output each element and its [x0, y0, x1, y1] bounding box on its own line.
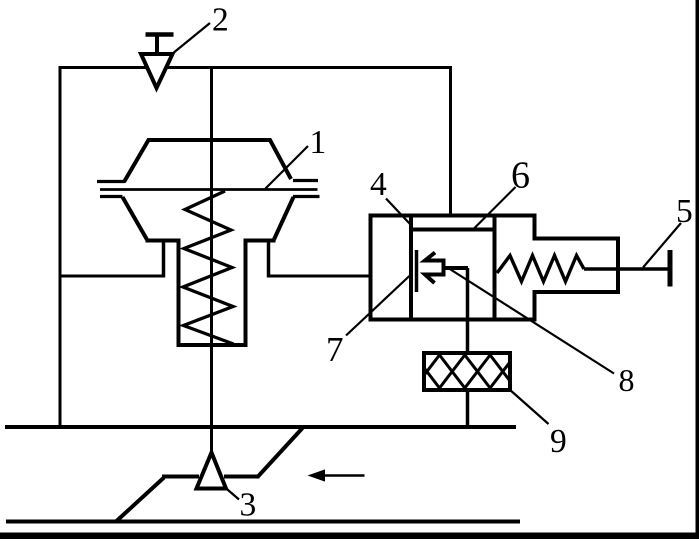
wire: left vertical signal line [59, 66, 62, 427]
svg-text:9: 9 [550, 423, 567, 460]
actuator 1: spring housing left wall [177, 239, 181, 348]
actuator 1: upper shell [124, 140, 291, 182]
wire: left lower-chamber branch [60, 275, 165, 278]
leader line to 2 [172, 23, 210, 54]
pipe: right jog diagonal [258, 428, 303, 477]
pipe: lower process line [6, 520, 520, 524]
nozzle 8: upper arrow [425, 253, 444, 261]
pipe: left jog horizontal [162, 475, 199, 479]
actuator 1: upper-left flange line [97, 180, 125, 183]
leader line to 3 [225, 487, 240, 500]
leader line to 7 [346, 274, 412, 336]
pilot body: partition 4 [409, 216, 413, 319]
pilot body 4: outer stepped outline [371, 216, 619, 320]
wire: damper stem down to pipe [466, 389, 470, 427]
actuator 1: spring housing bottom [177, 343, 248, 347]
leader line to 5 [643, 223, 681, 268]
damper 9: hatched box [414, 353, 515, 390]
actuator 1: lower shell right diagonal [274, 197, 294, 241]
nozzle 8: vertical joint [442, 259, 446, 277]
pilot body: inner top plate 6 [411, 228, 495, 232]
svg-text:5: 5 [676, 193, 693, 230]
vent symbol 2: stem [155, 35, 159, 55]
leader line to 1 [266, 146, 309, 189]
wire: top horizontal signal line [59, 66, 453, 69]
pipe: upper process line [5, 425, 516, 429]
svg-text:1: 1 [310, 124, 327, 161]
actuator 1: lower-left flange line [100, 195, 123, 198]
scan artifact: right edge bar [696, 0, 699, 539]
pipe: right jog horizontal [224, 475, 260, 479]
pilot body: partition right [493, 216, 497, 319]
vent symbol 2: triangle [141, 54, 173, 88]
svg-text:8: 8 [619, 362, 635, 398]
wire: center valve stem vertical [210, 68, 213, 454]
actuator 1: return spring zigzag [183, 191, 234, 344]
spring 5: adjuster T end [668, 250, 673, 287]
spring 5: adjuster rod [584, 267, 670, 270]
svg-text:7: 7 [326, 330, 344, 369]
leader line to 8 [449, 269, 614, 374]
vent symbol 2: T-bar [146, 32, 174, 37]
svg-text:2: 2 [212, 2, 229, 39]
actuator 1: diaphragm line [100, 188, 318, 191]
nozzle 8: lower arrow [425, 275, 444, 284]
svg-text:3: 3 [240, 487, 257, 524]
flow arrow: head [308, 469, 326, 481]
valve plug 3: triangle [197, 453, 227, 489]
actuator 1: lower-right flange line [293, 195, 320, 198]
leader line to 4 [386, 199, 410, 225]
svg-text:6: 6 [511, 154, 530, 196]
svg-text:4: 4 [370, 166, 387, 203]
wire: right lower-chamber branch to pilot body [267, 275, 371, 278]
spring 5: zigzag [497, 256, 584, 282]
wire: right vertical line to pilot body top [449, 66, 452, 216]
actuator 1: upper-right flange line [293, 179, 318, 182]
actuator 1: spring housing right wall [244, 239, 248, 348]
scan artifact: bottom bar [0, 533, 699, 540]
actuator 1: right shoulder [244, 239, 276, 243]
actuator 1: left shoulder [146, 239, 181, 243]
actuator 1: lower shell left diagonal [123, 197, 148, 241]
leader line to 9 [509, 389, 549, 424]
nozzle 8: shaft [444, 266, 469, 270]
pipe: left jog diagonal [116, 478, 164, 522]
flow arrow: shaft [320, 474, 365, 477]
wire: nozzle stem down to damper [466, 268, 470, 354]
actuator 1: right connection leg [267, 241, 271, 278]
actuator 1: left connection leg [162, 241, 166, 278]
leader line to 6 [473, 187, 516, 230]
flapper 7: vertical bar [415, 250, 419, 292]
